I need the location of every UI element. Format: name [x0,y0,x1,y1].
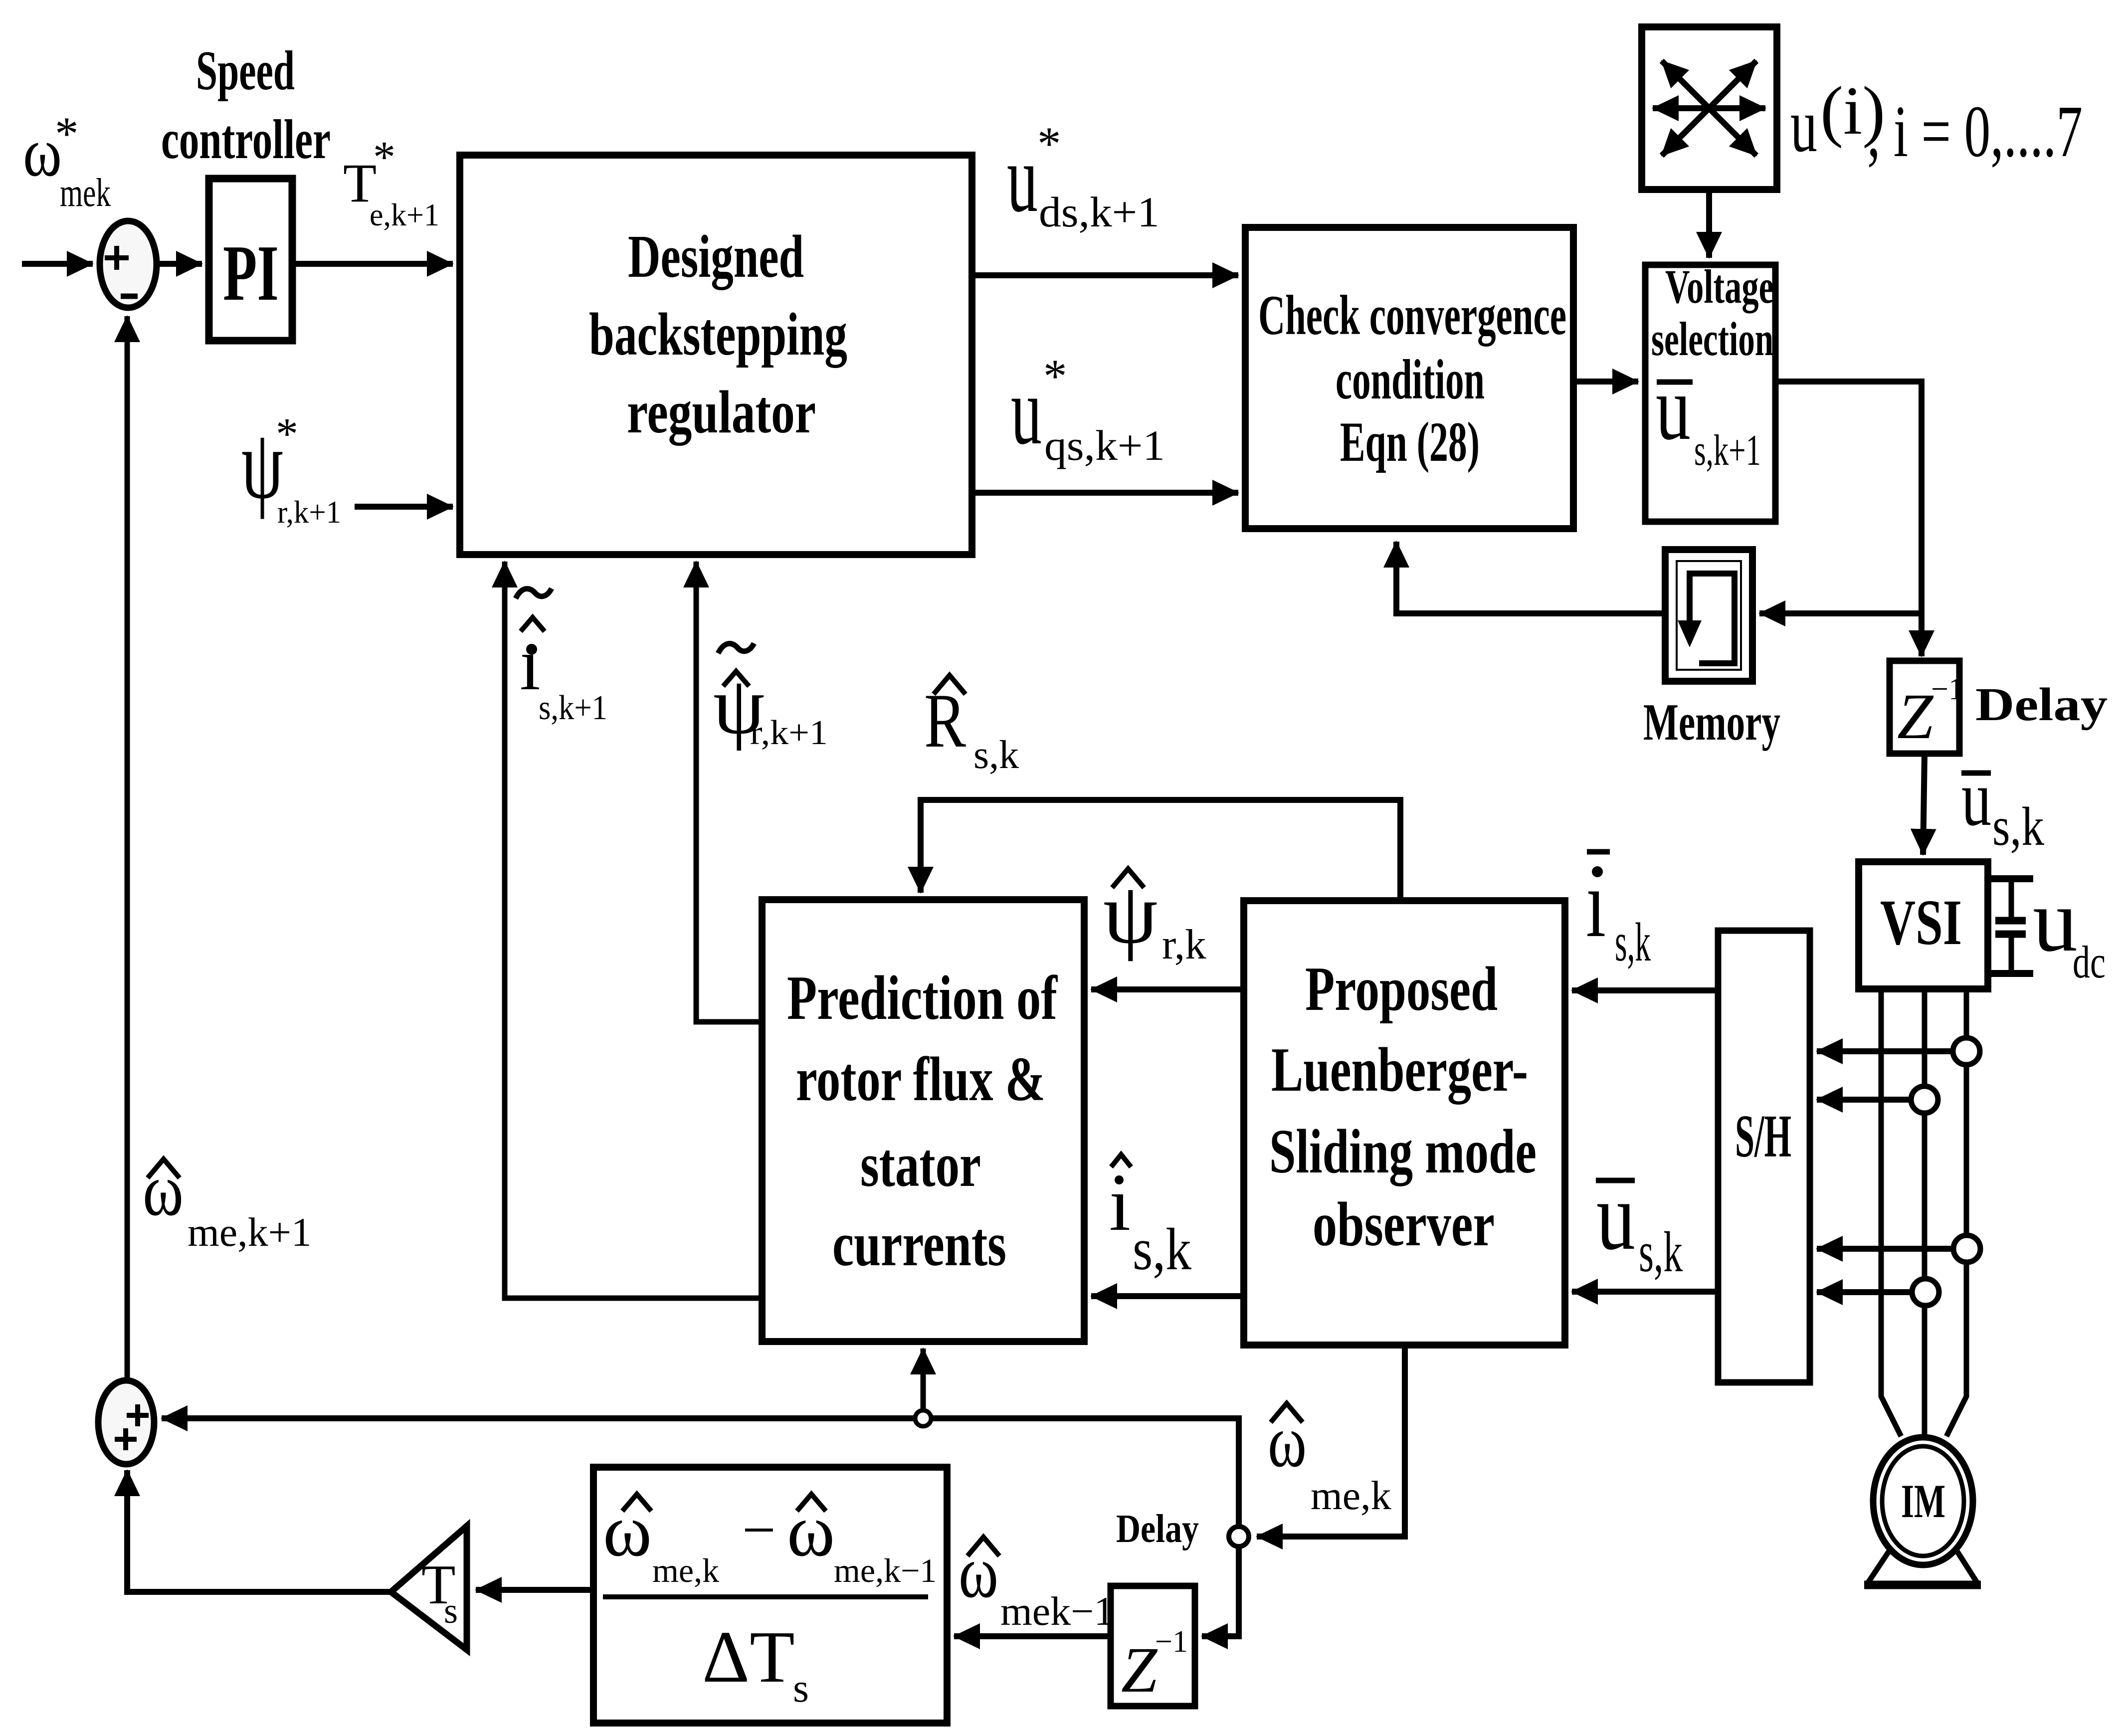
label psi*_r,k+1 (flux reference) [241,409,341,530]
svg-text:me,k−1: me,k−1 [834,1551,937,1589]
block VSI [1859,862,1988,989]
label R-hat_s,k [924,675,1019,777]
wire: memory to check box (iteration loop) [1396,542,1665,613]
svg-text:s,k+1: s,k+1 [1694,426,1761,475]
svg-text:mek: mek [60,171,111,215]
wire: S2 up to S1 (omega-hat_me,k+1 feedback) [125,316,130,1380]
wire: observer omega-hat_me,k down and left to junction [1257,1345,1405,1537]
svg-text:Delay: Delay [1975,679,2108,731]
svg-text:*: * [1037,117,1061,170]
svg-text:backstepping: backstepping [589,301,847,368]
svg-text:Delay: Delay [1116,1507,1199,1551]
svg-text:Proposed: Proposed [1305,955,1498,1024]
svg-text:me,k+1: me,k+1 [188,1209,312,1255]
voltage selection u-bar_s,k+1 [1656,357,1761,475]
prediction text [787,964,1058,1279]
wire: J1 down and left into delay Z^-1 [1202,1546,1239,1636]
junction node J1 (omega-hat_me,k) [1229,1527,1249,1546]
wire: voltage sensor 4 to S/H [1817,1289,1912,1295]
S2 plus sign bottom [115,1428,137,1450]
wire: S/H to observer i-bar_s,k [1572,987,1718,993]
svg-text:stator: stator [860,1131,981,1200]
svg-text:*: * [276,409,298,459]
S1 minus sign [121,294,138,299]
label u*_qs,k+1 [1011,350,1165,469]
svg-text:ı: ı [1109,1161,1131,1247]
svg-text:Speed: Speed [196,40,295,102]
label u-bar_s,k (measured voltage) [1596,1162,1683,1284]
summing junction S1 (speed error) [100,221,157,308]
memory loop icon [1690,574,1735,663]
label u_dc [2033,871,2106,987]
label u*_ds,k+1 [1007,117,1159,236]
svg-text:ds,k+1: ds,k+1 [1039,188,1159,236]
Z^-1 text (bottom) [1121,1625,1188,1706]
svg-text:s,k: s,k [1639,1220,1683,1284]
wire: branch to memory [1759,610,1922,616]
svg-text:dc: dc [2073,937,2106,987]
svg-text:R: R [924,678,966,764]
S1 plus sign [105,246,129,270]
label omega-hat_me,k+1 [143,1149,312,1255]
svg-text:Memory: Memory [1643,693,1780,751]
svg-text:Designed: Designed [628,223,804,290]
wire: prediction to regulator psi-tilde_r,k+1 [696,562,762,1022]
label: Speed controller [161,40,331,171]
block: Prediction of rotor flux & stator currents [762,900,1084,1342]
label u^(i), i = 0,....7 [1790,72,2083,173]
wire: derivative to gain T_s [476,1587,593,1593]
label i-tilde-hat_s,k+1 [516,588,607,727]
block PI (speed controller) [209,179,292,341]
motor mount stand [1864,1551,1981,1585]
wire: check box to voltage selection [1573,379,1638,385]
dc-link capacitor symbol [1985,879,2033,973]
Z^-1 text (top) [1897,672,1964,753]
svg-text:Luenberger-: Luenberger- [1271,1035,1528,1105]
wire: R-hat_s,k feedback from observer top to prediction top [921,800,1400,901]
svg-text:u: u [1596,1162,1635,1270]
block: Proposed Luenberger- Sliding mode observer [1244,901,1565,1345]
wire: VSI phase a [1881,989,1901,1436]
label omega-hat_me,k [1268,1400,1391,1518]
svg-text:u: u [1656,357,1691,459]
svg-text:−: − [742,1497,776,1563]
derivative denominator Delta T_s [702,1616,809,1711]
svg-text:s,k: s,k [1133,1216,1191,1282]
svg-text:−1: −1 [1931,672,1964,706]
wire: VSI phase c [1946,989,1966,1436]
svg-text:*: * [373,133,395,182]
svg-text:Check convergence: Check convergence [1258,284,1566,347]
observer text [1269,955,1537,1259]
label psi-tilde-hat_r,k+1 [713,643,828,752]
svg-text:ψ: ψ [1103,865,1158,962]
svg-text:ı: ı [1586,850,1606,958]
wire: voltage selection output right then down [1775,382,1922,656]
wire: junction J1 up to main omega line [1236,1415,1242,1527]
svg-text:VSI: VSI [1880,887,1962,959]
svg-text:Eqn (28): Eqn (28) [1340,411,1480,473]
block: Voltage selection [1645,265,1775,522]
wire: prediction to regulator i-tilde_s,k+1 [505,562,762,1298]
block: Designed backstepping regulator [460,155,972,555]
wire: PI to regulator, T*_e,k+1 [292,261,453,267]
svg-text:u: u [1790,82,1817,168]
svg-text:condition: condition [1336,349,1485,411]
svg-text:r,k+1: r,k+1 [277,494,341,530]
svg-text:ΔT: ΔT [702,1616,795,1698]
svg-text:s: s [444,1591,458,1631]
current sensor tap 2 [1911,1086,1938,1113]
regulator text [589,223,847,446]
svg-text:*: * [1043,350,1067,402]
wire: current sensor 1 to S/H [1817,1048,1953,1054]
svg-text:PI: PI [223,228,279,317]
wire: speed reference input [22,261,93,267]
svg-text:Z: Z [1121,1634,1158,1706]
svg-text:ω: ω [1268,1400,1307,1483]
wire: VSI phase b [1922,989,1928,1439]
check box text [1258,284,1566,473]
block: delay Z^-1 (bottom) [1111,1586,1195,1706]
wire: flux reference input [355,504,453,510]
svg-text:ω: ω [787,1489,835,1572]
T_s label [421,1554,458,1631]
svg-text:Sliding mode: Sliding mode [1269,1117,1537,1186]
block: Memory [1665,550,1752,681]
wire: S1 to PI [157,261,202,267]
svg-text:observer: observer [1313,1190,1495,1259]
svg-text:e,k+1: e,k+1 [370,197,439,232]
wire: observer to prediction psi-hat_r,k [1091,986,1244,992]
svg-text:currents: currents [832,1210,1006,1279]
current sensor tap 1 [1953,1038,1980,1065]
svg-text:controller: controller [161,109,331,171]
wire: regulator output u*_qs,k+1 [972,490,1238,496]
svg-text:Prediction of: Prediction of [787,964,1058,1033]
wire: S/H to observer u-bar_s,k [1572,1289,1718,1295]
wire: vectors icon to voltage selection [1706,190,1712,258]
svg-text:u: u [2033,871,2078,970]
svg-text:IM: IM [1901,1475,1945,1528]
wire: Z^-1 to VSI [1923,754,1925,855]
block: delay Z^-1 (top) [1890,661,1959,754]
label i-bar_s,k [1586,850,1651,972]
svg-text:r,k+1: r,k+1 [750,714,828,752]
wire: T_s to bottom summing junction [127,1470,391,1592]
label u-bar_s,k (into VSI) [1961,754,2044,857]
label i-hat_s,k [1109,1155,1191,1282]
block: Check convergence condition Eqn (28) [1245,227,1573,529]
svg-text:, i = 0,....7: , i = 0,....7 [1867,91,2083,173]
svg-text:s,k: s,k [1992,796,2044,857]
block: derivative (omega-hat_me,k - omega-hat_me,k-1)/(Delta T_s) [593,1467,947,1723]
wire: regulator output u*_ds,k+1 [972,272,1238,278]
svg-text:ω: ω [959,1531,998,1613]
memory loop arrowhead down [1678,620,1702,647]
svg-text:rotor flux &: rotor flux & [796,1045,1045,1114]
svg-text:u: u [1007,125,1038,232]
svg-text:ı: ı [520,623,541,706]
svg-text:s,k: s,k [1615,912,1651,972]
svg-text:Z: Z [1897,681,1934,753]
derivative numerator omega-hat_me,k - omega-hat_me,k-1 [603,1489,937,1589]
summing junction S2 (speed reconstruction) [98,1380,154,1464]
label psi-hat_r,k [1103,865,1206,968]
svg-text:S/H: S/H [1735,1103,1791,1170]
svg-text:qs,k+1: qs,k+1 [1044,421,1165,469]
svg-text:ω: ω [143,1149,184,1231]
wire: main omega-hat_me,k line to bottom summing junction [162,1415,1242,1421]
svg-text:ω: ω [603,1489,652,1572]
label T*_e,k+1 [343,133,439,232]
label omega-hat_mek-1 [959,1531,1114,1634]
junction node J2 on omega line [915,1410,931,1426]
svg-text:s: s [793,1665,809,1711]
svg-text:*: * [55,107,79,160]
svg-text:s,k+1: s,k+1 [539,689,607,727]
svg-text:regulator: regulator [627,379,816,446]
svg-text:me,k: me,k [1311,1473,1391,1518]
induction motor IM (double circle) [1873,1437,1973,1565]
svg-text:−1: −1 [1155,1625,1188,1659]
svg-text:me,k: me,k [652,1551,719,1589]
svg-text:s,k: s,k [973,733,1019,777]
node label omega*_mek (speed reference) [23,107,111,215]
voltage selection text [1651,260,1774,366]
voltage sensor tap 3 [1953,1235,1980,1262]
S2 plus sign right [127,1404,149,1426]
wire: Z^-1 to derivative block, omega-hat_mek-1 [954,1633,1111,1639]
gain triangle T_s [391,1526,467,1650]
wire: observer to prediction i-hat_s,k [1091,1293,1244,1299]
voltage sensor tap 4 [1912,1279,1939,1306]
wire: current sensor 2 to S/H [1817,1097,1911,1103]
svg-text:mek−1: mek−1 [1000,1588,1114,1634]
wire: J2 up into prediction box [921,1349,926,1410]
wire: voltage sensor 3 to S/H [1817,1246,1953,1252]
voltage vector arrows icon [1653,61,1765,156]
svg-text:u: u [1961,754,1991,842]
svg-text:Voltage: Voltage [1665,260,1774,313]
block: voltage vectors icon box [1642,27,1777,190]
svg-text:r,k: r,k [1162,921,1206,968]
block S/H (sample and hold) [1718,931,1810,1382]
derivative fraction bar [603,1594,928,1599]
svg-text:u: u [1011,357,1042,465]
